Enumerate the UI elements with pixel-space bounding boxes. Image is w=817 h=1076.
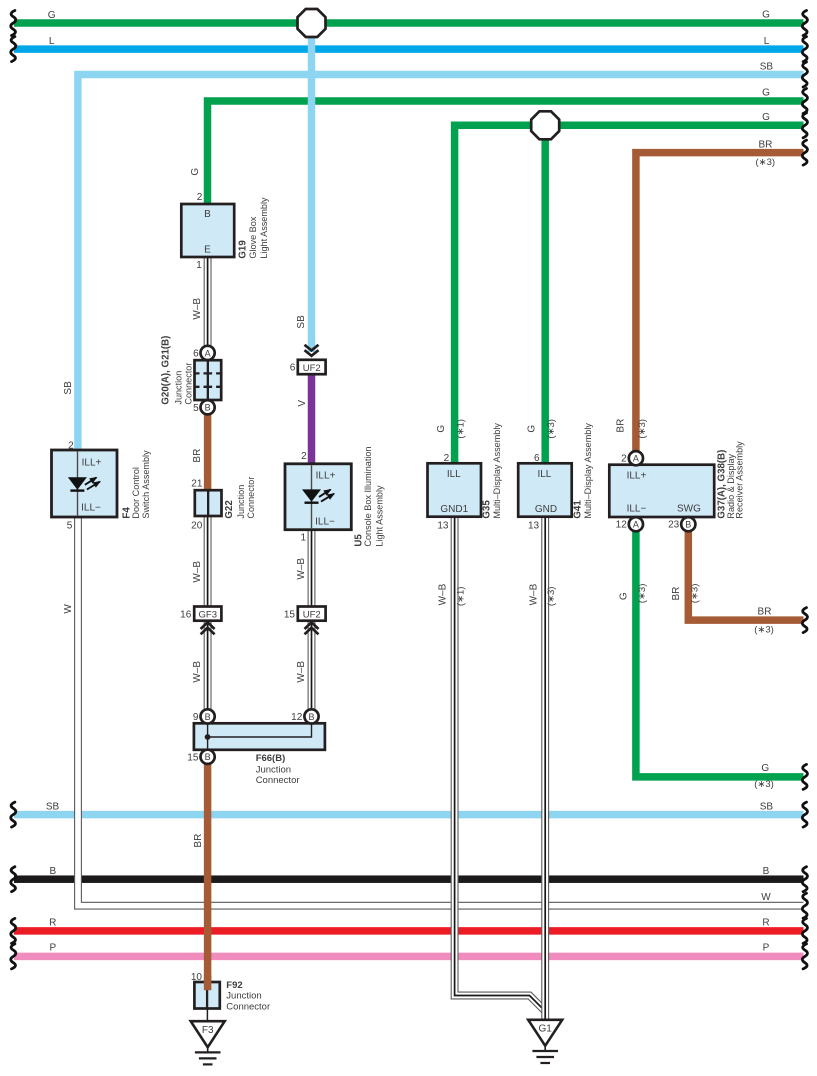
svg-text:SWG: SWG [677,504,701,515]
wire bus L [14,45,804,53]
wire W-B GF3 to F66 pin9 (W-B) [204,620,212,710]
svg-text:ILL+: ILL+ [82,457,102,468]
svg-text:B: B [685,520,691,530]
svg-text:G22: G22 [224,500,235,518]
svg-text:G: G [436,425,447,433]
component G37(A), G38(B) Radio and Display Receiver Assembly [609,465,714,517]
svg-text:W–B: W–B [192,298,203,320]
internal wire F66 [208,723,312,750]
svg-text:2: 2 [621,453,627,464]
wire G drop to G41 [541,132,549,465]
svg-text:UF2: UF2 [303,363,321,374]
wire V wire UF2 to U5 [308,374,316,465]
junction octagon octagon splice (bus G top) [298,9,326,37]
svg-text:UF2: UF2 [303,609,321,620]
wire-break squiggle G elbow right [802,764,807,789]
svg-text:W–B: W–B [296,661,307,683]
connector UF2 (pin 6) [298,360,326,374]
svg-text:G19: G19 [238,240,249,259]
svg-text:B: B [763,866,770,877]
svg-text:Receiver Assembly: Receiver Assembly [735,441,745,519]
wire-break squiggle G 2nd right [802,89,807,114]
svg-text:SB: SB [760,801,774,812]
svg-text:F3: F3 [202,1025,214,1036]
wire bus R [14,927,804,935]
svg-text:B: B [308,712,314,722]
svg-text:Light Assembly: Light Assembly [374,485,384,547]
wire W-B G19 to junction A (W-B) [204,256,212,346]
svg-text:BR: BR [193,834,204,848]
svg-text:B: B [204,209,211,220]
svg-text:5: 5 [67,521,73,532]
svg-text:(∗3): (∗3) [546,587,557,607]
junction dot F66 [205,734,211,740]
svg-text:G20(A), G21(B): G20(A), G21(B) [160,336,171,405]
svg-text:G: G [762,88,770,99]
wire-break squiggle BR top-right [802,140,807,165]
svg-text:(∗3): (∗3) [546,419,557,439]
svg-text:B: B [49,866,56,877]
svg-text:BR: BR [758,606,772,617]
svg-text:ILL−: ILL− [627,504,647,515]
pin connector circle B (pin 9) F66 [201,709,215,723]
wire W-B U5 to UF2(15) (W-B) [308,529,316,608]
component G22 Junction Connector [195,490,222,516]
svg-text:ILL: ILL [447,469,461,480]
wire bus G (3rd) with drop to G35 [455,125,804,464]
svg-text:W–B: W–B [296,558,307,580]
ground symbol G1 [528,1020,562,1063]
svg-text:Glove Box: Glove Box [248,216,258,258]
svg-text:(∗1): (∗1) [456,587,467,607]
shielded-wire chevron (up) below GF3 [201,622,215,629]
pin connector circle B (pin 15) F66 [201,750,215,764]
svg-text:G: G [619,592,630,600]
svg-text:Connector: Connector [246,477,256,519]
svg-text:15: 15 [284,609,296,620]
wire G from G37 pin12 to right edge [636,531,804,777]
wire-break squiggle R right [802,918,807,943]
svg-text:Junction: Junction [173,371,183,405]
wire-break squiggle SB bottom-right [802,802,807,827]
wire bus G (top) [14,19,804,27]
svg-text:B: B [205,752,211,762]
svg-text:(∗3): (∗3) [754,779,774,790]
svg-text:ILL+: ILL+ [627,470,647,481]
svg-text:1: 1 [196,260,202,271]
svg-text:(∗3): (∗3) [689,584,700,604]
svg-text:Multi–Display Assembly: Multi–Display Assembly [583,423,593,519]
svg-text:BR: BR [758,139,772,150]
svg-text:Junction: Junction [256,764,291,775]
wire BR tail inside F92 [204,975,212,990]
svg-text:A: A [205,348,211,358]
svg-text:6: 6 [534,453,540,464]
svg-text:13: 13 [437,521,449,532]
svg-text:G: G [761,763,769,774]
svg-text:F66(B): F66(B) [256,753,286,764]
wire F92 to ground F3 [206,1009,208,1022]
svg-text:V: V [297,400,308,407]
svg-text:Light Assembly: Light Assembly [259,197,269,259]
svg-text:Junction: Junction [226,991,261,1002]
component F4 Door Control Switch Assembly [52,450,118,517]
wire-break squiggle G top-left [11,11,16,36]
wire-break squiggle P right [802,944,807,969]
wire-break squiggle BR elbow right [802,608,807,633]
svg-text:Connector: Connector [226,1001,270,1012]
svg-text:GF3: GF3 [199,609,217,620]
svg-text:A: A [633,520,639,530]
wire bus BR (top) with drop to G37 [636,153,804,452]
component G41 Multi-Display Assembly [518,463,572,516]
svg-text:W–B: W–B [192,561,203,583]
wire W-B G22 to GF3 (W-B) [204,515,212,607]
wire-break squiggle G top-right [802,11,807,36]
svg-text:BR: BR [616,419,627,433]
wire-break squiggle B left [11,867,16,892]
svg-text:G: G [762,112,770,123]
svg-text:B: B [205,712,211,722]
svg-text:6: 6 [193,348,199,359]
svg-text:12: 12 [291,712,303,723]
svg-text:2: 2 [68,440,74,451]
svg-text:A: A [633,454,639,464]
svg-text:Multi–Display Assembly: Multi–Display Assembly [492,423,502,519]
wire bus SB (bottom) [14,811,804,819]
svg-text:Door Control: Door Control [131,467,141,519]
wire W-B G35 to ground join (W-B) [455,516,546,1012]
svg-text:SB: SB [760,61,774,72]
wire bus SB (top) with drop to F4 [78,75,804,452]
svg-text:B: B [205,403,211,413]
component U5 Console Box Illumination Light Assembly [285,464,351,530]
svg-text:ILL−: ILL− [81,503,101,514]
svg-text:R: R [49,917,56,928]
svg-text:ILL: ILL [537,469,551,480]
svg-text:W–B: W–B [528,583,539,605]
svg-text:W: W [761,892,771,903]
svg-text:BR: BR [671,587,682,601]
svg-text:BR: BR [192,449,203,463]
svg-text:ILL−: ILL− [315,517,335,528]
svg-text:(∗3): (∗3) [637,584,648,604]
svg-text:SB: SB [63,381,74,395]
svg-text:L: L [764,36,770,47]
svg-text:6: 6 [290,363,296,374]
svg-text:SB: SB [296,315,307,329]
svg-text:23: 23 [668,520,680,531]
svg-text:G: G [190,168,201,176]
wire bus G (2nd) with drop to G19 [208,101,804,205]
svg-text:20: 20 [191,521,203,532]
svg-text:F92: F92 [226,980,242,991]
connector GF3 (pin 16) [194,607,221,621]
svg-text:(∗3): (∗3) [756,157,776,168]
svg-text:ILL+: ILL+ [316,471,336,482]
wire-break squiggle L right [802,37,807,62]
svg-text:(∗3): (∗3) [637,419,648,439]
svg-text:Console Box Illumination: Console Box Illumination [363,447,373,547]
svg-text:Switch Assembly: Switch Assembly [141,450,151,519]
wire W-B UF2(15) to F66 pin12 (W-B) [308,620,316,710]
pin connector circle A (pin 12) G37 [629,517,643,531]
connector UF2 (pin 15) [298,607,326,621]
LED symbol LED in F4 [68,477,101,491]
svg-text:W–B: W–B [438,583,449,605]
svg-text:GND1: GND1 [440,504,468,515]
svg-text:(∗3): (∗3) [754,624,774,635]
svg-text:1: 1 [300,533,306,544]
svg-text:G: G [762,10,770,21]
svg-text:(∗1): (∗1) [456,419,467,439]
svg-text:P: P [763,943,770,954]
svg-text:2: 2 [301,451,307,462]
shielded-wire chevron (down) into UF2 pin6 [305,345,319,351]
svg-text:5: 5 [193,403,199,414]
wire W from F4 pin5 to right edge (W) [78,515,804,906]
wire bus P [14,953,804,961]
svg-text:P: P [49,943,56,954]
pin connector circle A (pin 6) G20 [201,346,215,360]
junction octagon octagon splice (bus G 3rd) [531,111,559,139]
wire BR from G38 pin23 to right edge [688,531,803,621]
wire SB drop from octagon to UF2 [308,30,316,352]
wire-break squiggle SB bottom-left [11,802,16,827]
svg-text:W: W [63,604,74,614]
pin connector circle B (pin 12) F66 [304,709,318,723]
wire W-B G41 to ground G1 (W-B) [541,516,549,1021]
wire-break squiggle P left [11,944,16,969]
component G20(A), G21(B) Junction Connector [195,360,222,400]
wire bus B [14,875,804,883]
wire-break squiggle L left [11,37,16,62]
svg-text:15: 15 [187,752,199,763]
wire-break squiggle SB top-right [802,62,807,87]
svg-text:SB: SB [46,801,60,812]
pin connector circle B (pin 5) G21 [201,400,215,414]
svg-text:Connector: Connector [183,363,193,405]
svg-text:Junction: Junction [236,485,246,519]
svg-text:L: L [49,36,55,47]
wire-break squiggle G 3rd right [802,113,807,138]
svg-text:G: G [527,425,538,433]
pin connector circle B (pin 23) G38 [681,517,695,531]
ground symbol F3 [191,1021,225,1064]
component F92 Junction Connector [194,982,219,1009]
shielded-wire chevron (up) below UF2(15) [305,622,319,629]
wire BR junction B to G22 [204,414,212,491]
svg-text:16: 16 [180,609,192,620]
svg-text:E: E [204,244,211,255]
svg-text:2: 2 [444,453,450,464]
svg-text:G: G [48,10,56,21]
svg-text:9: 9 [193,712,199,723]
svg-text:GND: GND [535,504,557,515]
svg-text:2: 2 [197,192,203,203]
pin connector circle A (pin 2) G37 [629,451,643,465]
svg-text:13: 13 [528,521,540,532]
component G19 Glove Box Light Assembly [181,204,234,257]
wire-break squiggle R left [11,918,16,943]
wire-break squiggle W right [802,893,807,918]
svg-text:21: 21 [191,479,203,490]
component F66(B) Junction Connector [194,723,325,750]
svg-text:G1: G1 [539,1024,553,1035]
svg-text:R: R [762,917,769,928]
wire BR F66 pin15 to F92 [204,764,212,984]
component G35 Multi-Display Assembly [428,463,482,516]
LED symbol LED in U5 [302,489,335,503]
svg-text:Connector: Connector [256,775,300,786]
svg-text:12: 12 [616,520,628,531]
svg-text:W–B: W–B [192,661,203,683]
wire-break squiggle B right [802,867,807,892]
